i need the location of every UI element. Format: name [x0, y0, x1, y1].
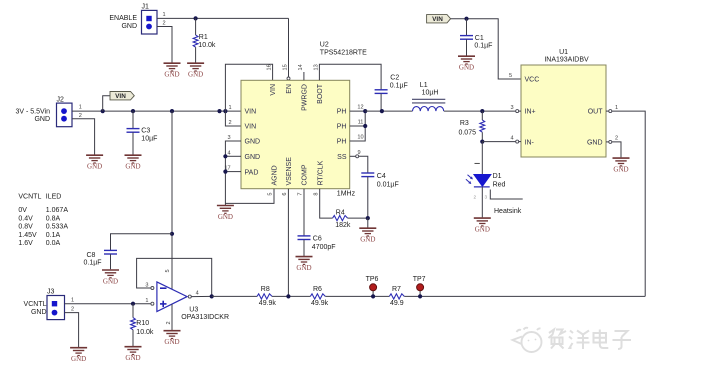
svg-text:0.8A: 0.8A — [46, 215, 61, 222]
svg-text:5: 5 — [268, 193, 274, 196]
svg-text:INA193AIDBV: INA193AIDBV — [544, 57, 589, 64]
svg-text:R1: R1 — [199, 34, 208, 41]
wire D1 cathode — [481, 187, 483, 218]
svg-text:GND: GND — [121, 23, 137, 30]
wire SS to C4 — [359, 156, 368, 172]
svg-text:1.067A: 1.067A — [46, 207, 69, 214]
node VSENSE bottom — [286, 294, 290, 298]
svg-text:C2: C2 — [390, 74, 399, 81]
net label VIN (right) — [427, 15, 451, 24]
wire C4 bottom — [367, 177, 369, 218]
watermark logo icon — [513, 328, 542, 352]
svg-text:1.6V: 1.6V — [18, 240, 33, 247]
svg-text:C8: C8 — [87, 252, 96, 259]
wire C8 branch — [111, 234, 173, 250]
wire rail down to op-amp supply — [171, 111, 173, 289]
node pin17 bus — [223, 170, 227, 174]
resistor R8 — [257, 294, 272, 299]
svg-text:5: 5 — [165, 269, 171, 272]
svg-text:PH: PH — [337, 124, 347, 131]
svg-text:10µF: 10µF — [141, 136, 157, 143]
svg-text:2: 2 — [615, 135, 618, 141]
ground (C8) — [102, 270, 119, 285]
svg-text:AGND: AGND — [272, 165, 279, 185]
svg-text:U2: U2 — [320, 42, 329, 49]
wire VSENSE down — [287, 189, 289, 297]
pin circle op-amp plus — [151, 302, 154, 305]
svg-text:OPA313IDCKR: OPA313IDCKR — [181, 314, 229, 321]
ground (U3 pin2) — [164, 331, 181, 346]
node rail at pin16 drop — [217, 109, 221, 113]
svg-text:2: 2 — [166, 321, 172, 324]
svg-text:GND: GND — [31, 309, 47, 316]
wire pin17 stub — [225, 171, 241, 173]
ground (D1) — [474, 218, 491, 233]
ground (R10) — [125, 347, 142, 362]
wire PH to L1 — [365, 110, 412, 112]
wire J1 pin1 to EN — [157, 17, 289, 19]
svg-text:1MHz: 1MHz — [337, 191, 356, 198]
resistor R4 — [333, 216, 348, 221]
wire J2 pin2 to GND — [72, 119, 95, 155]
svg-text:12: 12 — [357, 105, 363, 111]
svg-text:0.075: 0.075 — [458, 130, 476, 137]
pin circle SS — [356, 155, 359, 158]
svg-text:1: 1 — [79, 105, 82, 111]
pin circle GND (U1) — [609, 140, 612, 143]
svg-text:1: 1 — [71, 298, 74, 304]
ground (J3 pin2) — [70, 348, 87, 363]
capacitor C3 — [127, 129, 140, 133]
wire PH pin11 stub — [350, 125, 366, 127]
svg-text:2: 2 — [71, 307, 74, 313]
svg-text:VIN: VIN — [245, 124, 257, 131]
node R1 top junction — [194, 16, 198, 20]
resistor R3 — [480, 120, 485, 132]
svg-text:3: 3 — [485, 195, 488, 200]
svg-text:3: 3 — [227, 135, 230, 141]
svg-text:J1: J1 — [142, 3, 150, 10]
wire R10 bottom — [132, 330, 134, 346]
node op-amp out — [210, 294, 214, 298]
svg-text:VIN: VIN — [270, 84, 277, 96]
svg-text:R10: R10 — [136, 320, 149, 327]
svg-text:2: 2 — [163, 21, 166, 27]
svg-text:BOOT: BOOT — [317, 83, 324, 104]
svg-text:0.1µF: 0.1µF — [390, 82, 408, 89]
node rail to opamp supply — [170, 109, 174, 113]
pin circle EN — [287, 77, 290, 80]
svg-text:COMP: COMP — [302, 164, 309, 185]
svg-text:VIN: VIN — [432, 16, 443, 23]
op-amp U2 main IC TPS54218RTE body — [241, 42, 367, 189]
wire heatsink tab — [490, 190, 522, 200]
svg-text:14: 14 — [298, 64, 304, 70]
svg-text:SS: SS — [337, 154, 347, 161]
svg-text:13: 13 — [313, 64, 319, 70]
svg-text:GND: GND — [34, 116, 50, 123]
svg-text:10.0k: 10.0k — [136, 329, 154, 336]
svg-text:Red: Red — [493, 181, 506, 188]
wire D1 anode drop — [481, 142, 483, 175]
connector J2 — [57, 96, 73, 126]
connector J1 — [142, 3, 158, 34]
svg-text:PH: PH — [337, 139, 347, 146]
svg-text:TP7: TP7 — [413, 276, 426, 283]
watermark text 4 — [613, 331, 632, 349]
ground (R4/C4) — [359, 228, 376, 243]
wire COMP to C6 — [303, 189, 305, 236]
wire C1 top — [466, 19, 468, 36]
svg-text:4700pF: 4700pF — [312, 244, 336, 251]
svg-text:11: 11 — [358, 120, 364, 126]
svg-text:0.0A: 0.0A — [46, 240, 61, 247]
svg-text:VSENSE: VSENSE — [286, 157, 293, 186]
resistor R10 — [131, 318, 136, 330]
resistor R6 — [310, 294, 325, 299]
ground (U2 GND bus) — [217, 206, 234, 221]
wire SS stub — [350, 155, 356, 157]
node C1 top — [464, 17, 468, 21]
svg-text:VIN: VIN — [115, 93, 126, 100]
wire pin16 loop — [225, 64, 272, 111]
wire pin4 stub — [225, 155, 241, 157]
svg-text:4: 4 — [227, 150, 230, 156]
wire R3 top — [481, 111, 483, 120]
svg-text:10: 10 — [357, 135, 363, 141]
svg-text:4: 4 — [196, 291, 199, 297]
capacitor C6 — [298, 236, 311, 240]
polarity dash D1 — [475, 162, 480, 164]
capacitor C1 — [460, 36, 473, 40]
wire VIN rail — [72, 110, 241, 112]
wire IN- stub — [519, 141, 521, 143]
wire U1 GND stub — [606, 141, 609, 143]
connector J3 — [47, 288, 65, 319]
svg-text:49.9k: 49.9k — [259, 300, 277, 307]
svg-text:182k: 182k — [335, 222, 351, 229]
wire out to R8 — [212, 295, 257, 297]
node PH pin12 — [363, 109, 367, 113]
wire EN drop — [288, 18, 290, 77]
wire C6 bottom — [303, 240, 305, 256]
svg-text:3: 3 — [510, 105, 513, 111]
svg-text:49.9k: 49.9k — [311, 300, 329, 307]
svg-text:R8: R8 — [261, 286, 270, 293]
svg-text:15: 15 — [283, 64, 289, 70]
svg-text:GND: GND — [245, 154, 261, 161]
wire IN+ stub — [519, 110, 521, 112]
svg-text:VCNTL: VCNTL — [24, 301, 47, 308]
wire R7 to TP7 and U1 OUT — [404, 295, 645, 297]
net label VIN (left) — [110, 92, 134, 101]
wire OUT to bottom chain — [612, 111, 645, 296]
ground (J1 pin2) — [164, 63, 181, 78]
watermark text 3 — [594, 330, 609, 349]
svg-text:U3: U3 — [189, 306, 198, 313]
svg-text:16: 16 — [267, 64, 273, 70]
svg-text:10.0k: 10.0k — [198, 42, 216, 49]
ground (U1) — [613, 158, 630, 173]
wire AGND pin5 — [225, 189, 274, 204]
node TP7 — [418, 294, 422, 298]
svg-text:6: 6 — [282, 193, 288, 196]
wire R8 to VSENSE node — [272, 295, 310, 297]
wire J1 pin2 to GND — [157, 27, 172, 63]
svg-text:1: 1 — [163, 12, 166, 18]
wire C3 bottom — [132, 132, 134, 154]
node C2 bottom — [380, 109, 384, 113]
svg-text:3V - 5.5Vin: 3V - 5.5Vin — [15, 108, 50, 115]
svg-text:0.533A: 0.533A — [46, 224, 69, 231]
inductor L1 — [412, 82, 445, 111]
test point TP6 — [366, 276, 379, 296]
svg-text:C4: C4 — [377, 173, 386, 180]
svg-text:J3: J3 — [47, 288, 55, 295]
svg-text:TP6: TP6 — [366, 276, 379, 283]
svg-text:R4: R4 — [336, 209, 345, 216]
wire R4 right — [348, 217, 368, 219]
wire VIN tag stem — [103, 96, 110, 111]
svg-text:0.4V: 0.4V — [18, 215, 33, 222]
wire op-amp out — [191, 295, 211, 297]
node R4/C4 junction — [366, 216, 370, 220]
wire C3 top — [132, 111, 134, 128]
wire GND bus pins 3,4,17 — [225, 141, 241, 205]
node VIN tag stem — [101, 109, 105, 113]
wire R6 to TP6 — [325, 295, 389, 297]
wire R1 bottom — [195, 47, 197, 62]
svg-text:D1: D1 — [493, 173, 502, 180]
svg-text:0.1A: 0.1A — [46, 232, 61, 239]
wire OUT stub — [606, 110, 609, 112]
test point TP7 — [413, 276, 426, 296]
pin circle op-amp out — [188, 295, 191, 298]
svg-text:0.8V: 0.8V — [18, 224, 33, 231]
wire C2 bottom — [380, 94, 382, 112]
svg-text:1.45V: 1.45V — [18, 232, 37, 239]
capacitor C8 — [104, 250, 117, 254]
svg-text:PWRGD: PWRGD — [302, 84, 309, 111]
wire junction to GND — [367, 218, 369, 227]
svg-text:5: 5 — [509, 73, 512, 79]
svg-text:1: 1 — [228, 105, 231, 111]
svg-text:4: 4 — [510, 135, 513, 141]
svg-text:1: 1 — [145, 298, 148, 304]
svg-text:VCNTL: VCNTL — [18, 194, 41, 201]
pin circle IN+ — [516, 110, 519, 113]
svg-text:0.1µF: 0.1µF — [84, 259, 102, 266]
pin circle IN- — [516, 140, 519, 143]
op-amp U1 current monitor INA193AIDBV body — [521, 49, 606, 157]
svg-text:J2: J2 — [57, 96, 65, 103]
wire R10 top — [132, 304, 134, 318]
svg-text:2: 2 — [228, 120, 231, 126]
node rail at U2 pin1 — [223, 109, 227, 113]
node R3 top — [480, 109, 484, 113]
LED D1 — [466, 173, 506, 188]
wire J3 pin2 to GND — [65, 313, 79, 347]
svg-text:OUT: OUT — [588, 109, 604, 116]
svg-text:PH: PH — [337, 109, 347, 116]
wire BOOT to C2 — [319, 64, 381, 89]
wire U1 GND down — [612, 142, 621, 158]
svg-text:8: 8 — [313, 193, 319, 196]
svg-text:ILED: ILED — [46, 194, 62, 201]
svg-text:U1: U1 — [559, 49, 568, 56]
svg-text:TPS54218RTE: TPS54218RTE — [320, 50, 367, 57]
wire IN- feed — [482, 141, 515, 143]
svg-text:0.01µF: 0.01µF — [377, 182, 399, 189]
svg-text:GND: GND — [245, 139, 261, 146]
wire C8 bottom — [110, 254, 112, 269]
node TP6 — [371, 294, 375, 298]
wire RT/CLK to R4 — [320, 189, 333, 218]
capacitor C4 — [361, 173, 374, 177]
node C3 — [131, 109, 135, 113]
svg-text:7: 7 — [298, 193, 304, 196]
wire feedback loop — [137, 258, 212, 296]
node C8 branch — [170, 232, 174, 236]
svg-text:C3: C3 — [141, 128, 150, 135]
svg-text:RT/CLK: RT/CLK — [317, 160, 324, 185]
watermark text 1 — [549, 330, 567, 349]
svg-text:1: 1 — [615, 105, 618, 111]
ground (C6) — [296, 257, 313, 272]
node pin4 bus — [223, 154, 227, 158]
wire VIN tag to VCC — [451, 19, 521, 79]
capacitor C2 — [375, 90, 388, 94]
pin circle OUT — [609, 110, 612, 113]
ground (J2 pin2) — [86, 155, 103, 170]
svg-text:ENABLE: ENABLE — [109, 15, 137, 22]
svg-text:R6: R6 — [313, 286, 322, 293]
pin stub PWRGD — [303, 72, 305, 80]
svg-text:EN: EN — [286, 84, 293, 94]
op-amp U3 OPA313IDCKR — [157, 282, 229, 321]
table VCNTL/ILED — [18, 194, 68, 247]
pin circle op-amp minus — [151, 287, 154, 290]
svg-text:R3: R3 — [460, 120, 469, 127]
wire L1 to IN+ — [444, 110, 516, 112]
svg-text:49.9: 49.9 — [390, 300, 404, 307]
wire PH bus — [350, 111, 366, 141]
wire R1 top — [195, 18, 197, 35]
svg-text:VCC: VCC — [525, 77, 540, 84]
ground (C1) — [458, 56, 475, 71]
svg-text:C1: C1 — [475, 35, 484, 42]
svg-text:PAD: PAD — [245, 169, 259, 176]
svg-text:0.1µF: 0.1µF — [474, 42, 492, 49]
resistor R7 — [389, 294, 404, 299]
svg-text:R7: R7 — [392, 286, 401, 293]
svg-text:0V: 0V — [18, 207, 27, 214]
svg-text:C6: C6 — [313, 235, 322, 242]
wire J3 pin1 to op-amp plus — [65, 303, 151, 305]
svg-text:Heatsink: Heatsink — [494, 208, 522, 215]
watermark text 2 — [569, 331, 590, 350]
svg-text:L1: L1 — [420, 82, 428, 89]
svg-text:10µH: 10µH — [422, 89, 439, 96]
node R10 top — [131, 302, 135, 306]
ground (R1) — [187, 63, 204, 78]
wire R3 bottom — [481, 132, 483, 141]
node PH pin11 — [363, 124, 367, 128]
wire op-amp pin2 to GND — [171, 304, 173, 330]
svg-text:VIN: VIN — [245, 109, 257, 116]
ground (C3) — [125, 155, 142, 170]
wire U2 pin2 feed — [225, 111, 241, 126]
svg-text:IN-: IN- — [525, 139, 535, 146]
svg-text:2: 2 — [474, 195, 477, 200]
svg-text:GND: GND — [587, 139, 603, 146]
svg-text:IN+: IN+ — [525, 109, 536, 116]
wire C1 bottom — [466, 39, 468, 55]
resistor R1 — [193, 35, 198, 47]
node R3 bottom — [480, 140, 484, 144]
